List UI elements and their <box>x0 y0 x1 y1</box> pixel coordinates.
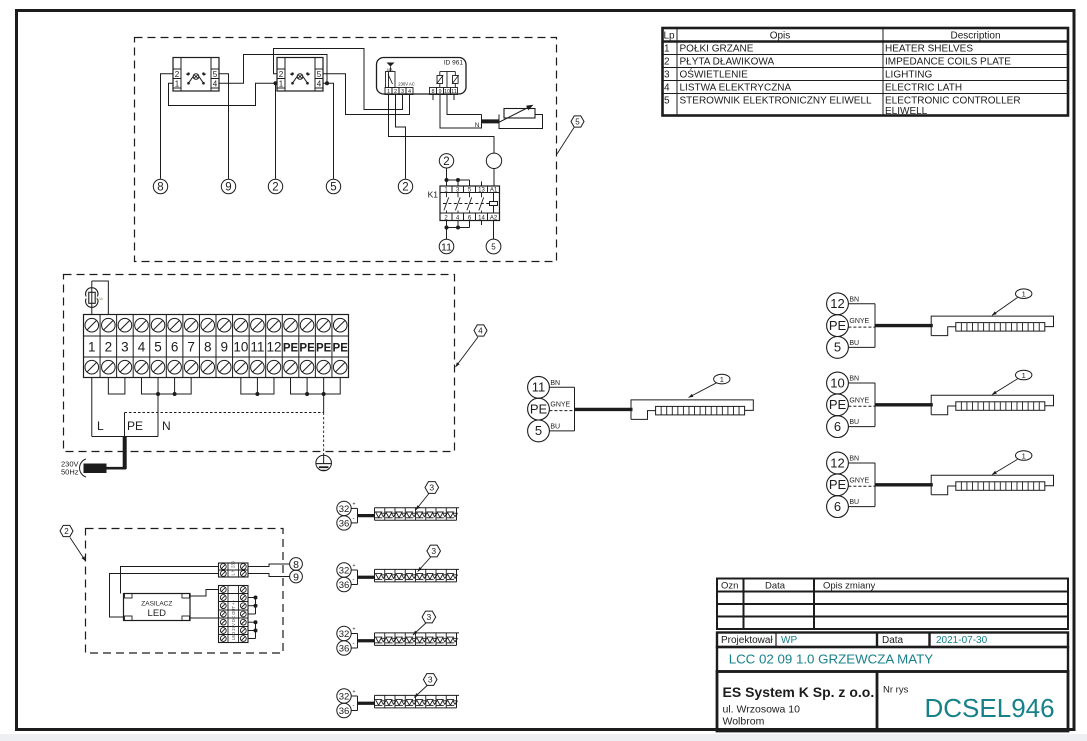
bridge terminals 10-12 <box>241 378 274 395</box>
svg-text:1: 1 <box>1022 371 1026 380</box>
svg-text:3: 3 <box>428 675 433 685</box>
wire K1.2 to node 11 <box>446 228 448 240</box>
heating mat M3 <box>931 395 1053 415</box>
node 5 (top section) <box>326 179 340 193</box>
svg-text:WP: WP <box>781 635 797 646</box>
wire mains block to node 8 <box>248 564 290 567</box>
svg-text:ES System K Sp. z o.o.: ES System K Sp. z o.o. <box>723 684 875 700</box>
svg-text:4: 4 <box>664 83 670 94</box>
svg-text:ZASILACZ: ZASILACZ <box>141 601 172 608</box>
section 2 dashed enclosure <box>86 529 284 654</box>
LED output terminal block <box>219 586 249 643</box>
heating mat M2 feed: nodes 12 PE 5 <box>827 293 849 315</box>
svg-text:-: - <box>353 578 355 584</box>
strip screws top row <box>85 318 99 332</box>
strip screws bottom row <box>85 360 99 374</box>
svg-text:9: 9 <box>225 182 231 194</box>
svg-text:PE: PE <box>829 477 847 492</box>
svg-text:BU: BU <box>849 419 859 426</box>
section 5 dashed enclosure <box>135 38 557 262</box>
svg-text:11: 11 <box>532 380 546 395</box>
svg-text:+: + <box>353 689 356 695</box>
svg-text:11: 11 <box>250 340 264 355</box>
svg-text:1: 1 <box>1022 290 1026 299</box>
thermostat T1 <box>173 58 219 92</box>
output block bridge top <box>248 597 256 599</box>
svg-text:PŁYTA DŁAWIKOWA: PŁYTA DŁAWIKOWA <box>680 57 775 68</box>
svg-text:2: 2 <box>402 182 408 194</box>
callout 1 (M3) <box>992 379 1018 395</box>
svg-text:BN: BN <box>550 380 560 387</box>
node 9 <box>221 179 235 193</box>
parts list table <box>663 28 1069 116</box>
wire mains block N to PSU <box>110 574 219 618</box>
wire T1.5 to node 9 <box>219 74 229 179</box>
title block: drawing title <box>717 647 1068 672</box>
K1 bottom bridge 2-4-6 <box>446 221 448 228</box>
svg-text:2: 2 <box>443 156 449 168</box>
svg-text:5: 5 <box>575 117 580 126</box>
node 32 <box>337 689 351 703</box>
wire node2 to K1.1 with bridge to K1.3 K1.5 <box>446 169 448 187</box>
svg-text:50Hz: 50Hz <box>61 468 79 477</box>
svg-text:5: 5 <box>330 182 336 194</box>
svg-text:STEROWNIK ELEKTRONICZNY ELIWEL: STEROWNIK ELEKTRONICZNY ELIWELL <box>680 96 873 107</box>
K1.13 stub <box>481 182 483 187</box>
svg-text:2: 2 <box>279 70 284 79</box>
callout 4 <box>456 337 479 367</box>
svg-text:Ozn: Ozn <box>721 581 738 592</box>
L PE N junction box <box>91 378 93 437</box>
node 36 <box>337 641 351 655</box>
callout 2 <box>70 538 86 562</box>
svg-text:POŁKI GRZANE: POŁKI GRZANE <box>680 44 754 55</box>
LED strip <box>375 694 460 696</box>
title block: company / drawing number <box>717 672 1068 732</box>
svg-text:BU: BU <box>849 499 859 506</box>
junction at T2.1 <box>274 81 278 85</box>
svg-text:36: 36 <box>339 580 350 591</box>
bridge terminals 4-7 <box>141 378 191 395</box>
svg-text:8: 8 <box>293 559 299 571</box>
callout 3 <box>418 557 432 572</box>
svg-text:2: 2 <box>105 340 113 355</box>
output block bridge bottom <box>248 621 256 623</box>
svg-text:1: 1 <box>720 375 724 384</box>
wire U1 pin9 to probe N <box>440 95 482 129</box>
probe cable joint <box>481 115 483 129</box>
svg-text:230V AC: 230V AC <box>398 82 415 87</box>
svg-text:1: 1 <box>175 79 180 88</box>
svg-text:ID 961: ID 961 <box>444 60 464 67</box>
callout 1 (M2) <box>992 298 1018 316</box>
node 32 <box>337 626 351 640</box>
svg-text:PE: PE <box>530 401 548 416</box>
svg-text:1: 1 <box>88 340 96 355</box>
svg-text:HEATER SHELVES: HEATER SHELVES <box>885 44 973 55</box>
node 36 <box>337 577 351 591</box>
svg-text:BU: BU <box>550 423 560 430</box>
svg-text:K1: K1 <box>428 190 439 200</box>
wire T1.2 to node 8 <box>161 74 174 179</box>
svg-text:36: 36 <box>339 519 350 530</box>
bridge terminals 2-3 <box>108 378 125 395</box>
svg-text:3: 3 <box>401 89 404 95</box>
node 32 <box>337 501 351 515</box>
svg-text:+: + <box>353 501 356 507</box>
svg-text:5: 5 <box>317 70 322 79</box>
svg-text:IMPEDANCE COILS PLATE: IMPEDANCE COILS PLATE <box>885 57 1011 68</box>
svg-text:DCSEL946: DCSEL946 <box>925 693 1055 723</box>
svg-text:2: 2 <box>394 89 397 95</box>
controller U1 ID 961 <box>377 58 467 95</box>
wire U1 pin10 to probe <box>447 95 482 115</box>
heating mat M1 feed: nodes 11 PE 5 <box>528 376 550 398</box>
svg-text:3: 3 <box>121 340 129 355</box>
heating mat M2 <box>931 316 1053 336</box>
svg-text:2: 2 <box>175 70 180 79</box>
wire PSU - to output block <box>190 617 219 619</box>
earth electrode <box>316 455 332 471</box>
svg-text:-: - <box>353 516 355 522</box>
node 36 <box>337 516 351 530</box>
svg-text:Lp: Lp <box>664 31 676 42</box>
svg-text:4: 4 <box>213 79 218 88</box>
U1 terminals 1-4 <box>385 88 392 95</box>
K1 contacts <box>446 193 448 198</box>
heating mat M3 feed: nodes 10 PE 6 <box>827 372 849 394</box>
U1 pin8 stub <box>432 95 434 101</box>
svg-text:3: 3 <box>427 612 432 622</box>
fuse F1 above terminal 1 <box>91 281 93 315</box>
svg-text:-: - <box>353 704 355 710</box>
svg-text:GNYE: GNYE <box>550 402 570 409</box>
svg-text:6: 6 <box>834 499 841 514</box>
svg-text:LED 24V DC OUT + -: LED 24V DC OUT + - <box>231 599 236 640</box>
node 9 (LED feed) <box>290 570 303 583</box>
wire T2.1 to node 2 <box>275 83 277 179</box>
temperature probe (adjustable resistor) <box>499 115 543 129</box>
svg-text:5: 5 <box>535 423 542 438</box>
svg-text:7: 7 <box>187 340 195 355</box>
svg-text:Data: Data <box>882 635 904 646</box>
svg-text:4: 4 <box>317 79 322 88</box>
svg-text:LED: LED <box>148 608 167 619</box>
svg-text:PE: PE <box>829 397 847 412</box>
revision table <box>717 579 1068 630</box>
svg-text:2021-07-30: 2021-07-30 <box>936 635 988 646</box>
wire T1.4 over T2 <box>219 55 327 84</box>
svg-text:32: 32 <box>339 504 350 515</box>
U1 probe inputs <box>440 71 456 73</box>
svg-text:LISTWA ELEKTRYCZNA: LISTWA ELEKTRYCZNA <box>680 83 792 94</box>
U1 internal relay contact 16A <box>387 63 395 67</box>
svg-text:4: 4 <box>138 340 146 355</box>
wire U1 pin1 to lamp H1 <box>389 95 495 154</box>
bottom window strip <box>0 734 1087 741</box>
svg-text:6: 6 <box>834 419 841 434</box>
svg-text:+: + <box>353 563 356 569</box>
svg-text:BU: BU <box>849 340 859 347</box>
callout 1 (M4) <box>992 459 1018 474</box>
svg-text:3: 3 <box>431 546 436 556</box>
wire U1 pin2 to node 2 <box>396 95 406 179</box>
svg-text:Nr rys: Nr rys <box>883 685 909 696</box>
svg-text:Data: Data <box>765 581 786 592</box>
svg-text:8: 8 <box>431 89 434 95</box>
U1 pin11 stub <box>453 95 455 101</box>
LED power supply (ZASILACZ LED) <box>124 594 191 621</box>
svg-text:2: 2 <box>664 57 670 68</box>
title block: designer row <box>717 633 1068 648</box>
node 32 <box>337 563 351 577</box>
svg-text:Opis zmiany: Opis zmiany <box>823 581 876 592</box>
svg-text:6,3A: 6,3A <box>96 297 104 301</box>
LED mains terminal block <box>219 563 249 577</box>
callout 3 <box>413 623 427 636</box>
svg-text:6: 6 <box>171 340 179 355</box>
svg-text:-: - <box>353 641 355 647</box>
svg-text:12: 12 <box>266 340 281 355</box>
svg-text:LCC 02 09 1.0 GRZEWCZA MATY: LCC 02 09 1.0 GRZEWCZA MATY <box>729 652 934 667</box>
svg-text:5: 5 <box>834 340 841 355</box>
svg-text:L: L <box>97 419 104 433</box>
svg-text:ELIWELL: ELIWELL <box>885 106 928 117</box>
U1 terminals 8-11 <box>430 88 437 95</box>
svg-text:32: 32 <box>339 629 350 640</box>
svg-text:5: 5 <box>491 243 496 252</box>
node 2 (left) <box>268 179 282 193</box>
node 8 (LED feed) <box>290 558 303 571</box>
node 2 (above K1) <box>439 154 453 168</box>
svg-text:ELECTRONIC CONTROLLER: ELECTRONIC CONTROLLER <box>885 96 1021 107</box>
svg-text:PE: PE <box>316 343 332 355</box>
svg-text:PE: PE <box>127 419 143 433</box>
svg-text:32: 32 <box>339 566 350 577</box>
PE distribution (dashed) <box>125 412 324 414</box>
svg-text:GNYE: GNYE <box>849 397 869 404</box>
callout 5 <box>557 128 574 155</box>
node 36 <box>337 703 351 717</box>
svg-text:1: 1 <box>1022 451 1026 460</box>
svg-text:PE: PE <box>333 343 349 355</box>
svg-text:GNYE: GNYE <box>849 318 869 325</box>
wire PSU + to output block <box>190 590 219 597</box>
svg-text:N: N <box>162 419 171 433</box>
lamp H1 <box>486 153 501 168</box>
wire lamp H1 to K1.A1 <box>493 169 495 187</box>
svg-text:1: 1 <box>387 89 390 95</box>
svg-text:11: 11 <box>441 241 452 253</box>
svg-text:5: 5 <box>664 96 670 107</box>
svg-text:9: 9 <box>438 89 441 95</box>
svg-text:4: 4 <box>478 326 483 335</box>
svg-text:36: 36 <box>339 706 350 717</box>
svg-text:Wolbrom: Wolbrom <box>723 716 765 728</box>
svg-text:9: 9 <box>221 340 229 355</box>
callout 1 (M1) <box>689 383 717 398</box>
svg-text:12: 12 <box>830 296 844 311</box>
svg-text:BN: BN <box>849 456 859 463</box>
svg-text:ELECTRIC LATH: ELECTRIC LATH <box>885 83 962 94</box>
node 5 (below K1) <box>486 239 501 254</box>
svg-text:8: 8 <box>204 340 212 355</box>
svg-text:11: 11 <box>451 89 457 95</box>
section 4 dashed enclosure <box>64 275 455 452</box>
wire T2.2 to ID961 pin3 <box>274 49 403 110</box>
svg-text:PE: PE <box>299 343 315 355</box>
svg-text:10: 10 <box>233 340 248 355</box>
svg-text:5: 5 <box>213 70 218 79</box>
heating mat M1 <box>631 400 753 420</box>
node 2 (below U1) <box>398 179 412 193</box>
svg-text:36: 36 <box>339 644 350 655</box>
svg-text:2: 2 <box>64 527 69 536</box>
svg-text:Projektował: Projektował <box>721 635 773 646</box>
svg-text:4: 4 <box>408 89 411 95</box>
svg-text:+: + <box>353 627 356 633</box>
wire T2.4 to node 5 <box>323 83 334 179</box>
K1.14 stub <box>481 221 483 226</box>
wire T1.1 to T2.1 <box>169 83 278 105</box>
svg-text:OŚWIETLENIE: OŚWIETLENIE <box>680 68 749 81</box>
K1 coil <box>490 202 498 206</box>
node 11 <box>439 239 454 254</box>
svg-text:2: 2 <box>272 182 278 194</box>
svg-text:9: 9 <box>293 571 299 583</box>
svg-text:32: 32 <box>339 692 350 703</box>
callout 3 <box>414 685 428 698</box>
svg-text:8: 8 <box>157 182 163 194</box>
svg-text:PE: PE <box>283 343 299 355</box>
callout 3 <box>416 493 430 510</box>
heating mat M4 feed: nodes 12 PE 6 <box>827 452 849 474</box>
svg-text:PE: PE <box>829 318 847 333</box>
svg-text:3: 3 <box>429 483 434 493</box>
svg-text:LIGHTING: LIGHTING <box>885 70 932 81</box>
svg-text:L N 230: L N 230 <box>231 560 236 575</box>
LED strip <box>375 632 460 634</box>
svg-text:BN: BN <box>849 296 859 303</box>
svg-text:1: 1 <box>279 79 284 88</box>
svg-text:BN: BN <box>849 376 859 383</box>
wire T2.5 to ID961 pin4 <box>323 74 410 115</box>
svg-text:ul. Wrzosowa 10: ul. Wrzosowa 10 <box>723 704 801 716</box>
junction at T2.4 <box>325 81 329 85</box>
heating mat M4 <box>931 475 1053 495</box>
svg-text:10: 10 <box>444 89 450 95</box>
svg-text:3: 3 <box>664 70 670 81</box>
bridge PE terminals <box>291 378 341 395</box>
svg-text:10: 10 <box>830 375 844 390</box>
LED strip <box>375 568 460 570</box>
node 8 <box>153 179 167 193</box>
LED strip <box>375 507 460 509</box>
svg-text:Opis: Opis <box>770 31 791 42</box>
svg-text:12: 12 <box>830 455 844 470</box>
wire mains block L to PSU <box>121 567 219 594</box>
wire K1.A2 to node 5 <box>493 221 495 240</box>
svg-text:5: 5 <box>154 340 162 355</box>
svg-text:Description: Description <box>950 31 1000 42</box>
svg-text:N: N <box>475 122 480 129</box>
svg-text:GNYE: GNYE <box>849 477 869 484</box>
contactor K1 <box>440 186 500 221</box>
terminal strip X1 <box>84 315 349 378</box>
svg-text:1: 1 <box>664 44 670 55</box>
wire mains block to node 9 <box>248 574 290 577</box>
thermostat T2 <box>277 58 323 92</box>
